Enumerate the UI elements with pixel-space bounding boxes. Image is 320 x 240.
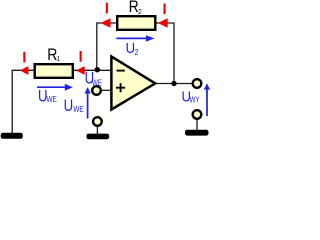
svg-text:R: R [47,46,57,64]
svg-text:U: U [126,40,135,56]
svg-text:U: U [64,97,74,116]
svg-text:1: 1 [57,56,61,64]
svg-text:2: 2 [138,9,142,17]
svg-text:R: R [129,0,139,16]
svg-text:2: 2 [135,47,139,57]
svg-text:WE: WE [47,94,57,104]
svg-text:WY: WY [190,97,200,105]
svg-text:WE: WE [92,78,102,88]
svg-text:WE: WE [73,104,83,114]
